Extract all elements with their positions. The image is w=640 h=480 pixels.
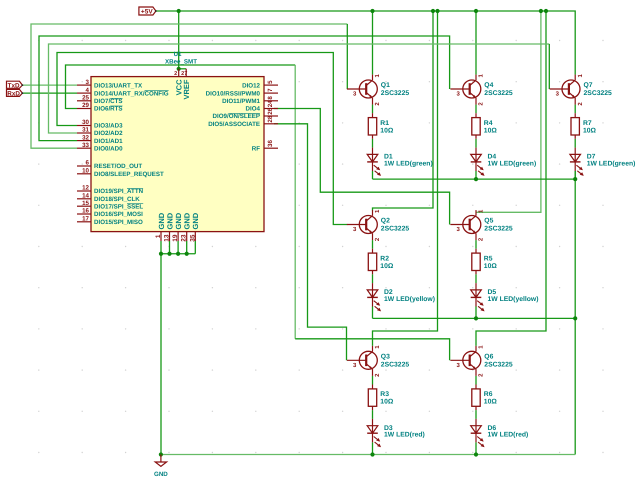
- wire +5V to Q5 collector: [476, 11, 541, 212]
- svg-text:DIO8/SLEEP_REQUEST: DIO8/SLEEP_REQUEST: [94, 171, 164, 178]
- wire DIO0/AD0 to Q1 base: [31, 24, 347, 148]
- svg-text:2SC3225: 2SC3225: [584, 90, 613, 97]
- svg-text:36: 36: [267, 140, 274, 147]
- LED D3 1W LED(red): [367, 419, 425, 447]
- svg-text:Q7: Q7: [584, 82, 593, 89]
- svg-text:DIO13/UART_TX: DIO13/UART_TX: [94, 82, 143, 89]
- pin 36 RF: [252, 140, 278, 153]
- svg-text:XBee_SMT: XBee_SMT: [165, 58, 197, 65]
- wire emitter to resistor: [372, 240, 374, 249]
- wire emitter to resistor: [372, 376, 374, 385]
- svg-text:28: 28: [267, 115, 274, 122]
- svg-text:10Ω: 10Ω: [380, 127, 394, 134]
- LED D5 1W LED(yellow): [471, 283, 539, 311]
- wire LED to bus: [475, 442, 477, 454]
- svg-text:10Ω: 10Ω: [380, 399, 394, 406]
- svg-text:35: 35: [189, 234, 196, 242]
- svg-text:27: 27: [181, 71, 187, 77]
- wire: [295, 339, 449, 361]
- svg-text:1W LED(green): 1W LED(green): [587, 160, 636, 167]
- pin 10 DIO8/SLEEP_REQUEST: [77, 168, 164, 179]
- svg-text:TxD: TxD: [8, 83, 20, 90]
- pin 17 DIO15/SPI_MISO: [77, 216, 143, 227]
- pin 12 DIO19/SPI_ATTN: [77, 185, 144, 196]
- wire DIO5/ASSOCIATE to Q3 base: [274, 124, 347, 360]
- pin 6 RESET/OD_OUT: [77, 160, 142, 171]
- svg-text:DIO9/ON/SLEEP: DIO9/ON/SLEEP: [213, 113, 260, 120]
- transistor Q7 2SC3225: [550, 74, 612, 106]
- LED D2 1W LED(yellow): [367, 283, 435, 311]
- wire VCC drop to U1: [178, 11, 180, 69]
- wire +5V to Q3 collector: [373, 11, 438, 346]
- svg-text:+5V: +5V: [141, 9, 153, 16]
- svg-text:3: 3: [86, 79, 90, 86]
- svg-text:17: 17: [82, 216, 89, 223]
- wire resistor to LED: [574, 139, 576, 148]
- svg-text:26: 26: [267, 107, 274, 114]
- pin 32 DIO1/AD1: [77, 134, 123, 145]
- junction: [159, 452, 163, 456]
- svg-text:1W LED(red): 1W LED(red): [384, 432, 425, 439]
- junction: [539, 9, 543, 13]
- svg-text:GND: GND: [154, 471, 168, 478]
- svg-text:16: 16: [82, 208, 89, 215]
- wire LED to bus: [372, 442, 374, 454]
- svg-text:VREF: VREF: [182, 79, 191, 99]
- wire DIO4 to Q5 base: [274, 109, 450, 225]
- junction: [177, 67, 181, 71]
- pin 7 DIO10/RSSI/PWM0: [206, 88, 278, 97]
- svg-text:DIO2/AD2: DIO2/AD2: [94, 130, 123, 137]
- pin 35 GND: [189, 212, 200, 241]
- wire emitter to resistor: [475, 105, 477, 114]
- svg-text:12: 12: [82, 185, 89, 192]
- svg-text:8: 8: [267, 96, 274, 100]
- LED D7 1W LED(green): [570, 148, 636, 176]
- svg-text:R1: R1: [380, 120, 389, 127]
- resistor R6 10Ω: [472, 385, 498, 411]
- svg-text:2SC3225: 2SC3225: [381, 226, 410, 233]
- svg-text:RxD: RxD: [7, 91, 20, 98]
- wire Q7 column down to GND bus: [574, 171, 576, 455]
- junction: [573, 177, 577, 181]
- svg-text:2SC3225: 2SC3225: [484, 90, 513, 97]
- wire emitter to resistor: [475, 376, 477, 385]
- transistor Q1 2SC3225: [347, 74, 409, 106]
- svg-text:1W LED(green): 1W LED(green): [488, 160, 537, 167]
- pin 8 DIO11/PWM1: [222, 96, 278, 105]
- wire resistor to LED: [372, 274, 374, 283]
- wire VREF jog: [179, 68, 187, 70]
- junction: [431, 9, 435, 13]
- svg-text:1W LED(red): 1W LED(red): [488, 432, 529, 439]
- svg-text:31: 31: [82, 127, 89, 134]
- svg-text:DIO16/SPI_MOSI: DIO16/SPI_MOSI: [94, 211, 143, 218]
- wire resistor to LED: [372, 410, 374, 419]
- svg-text:DIO14/UART_RX/CONFIG: DIO14/UART_RX/CONFIG: [94, 90, 169, 97]
- svg-text:DIO0/AD0: DIO0/AD0: [94, 145, 123, 152]
- svg-text:10: 10: [82, 168, 89, 175]
- svg-text:Q6: Q6: [484, 354, 493, 361]
- svg-text:R6: R6: [484, 391, 493, 398]
- svg-text:32: 32: [82, 134, 89, 141]
- junction: [167, 252, 171, 256]
- wire +5V to Q2 collector: [373, 11, 434, 211]
- svg-text:6: 6: [86, 160, 90, 167]
- svg-text:DIO12: DIO12: [242, 82, 260, 89]
- junction: [544, 9, 548, 13]
- svg-text:13: 13: [164, 234, 171, 242]
- svg-text:19: 19: [172, 234, 179, 242]
- resistor R2 10Ω: [368, 249, 394, 275]
- resistor R1 10Ω: [368, 113, 394, 139]
- svg-text:15: 15: [82, 200, 89, 207]
- junction: [474, 316, 478, 320]
- svg-text:5: 5: [267, 80, 274, 84]
- svg-text:DIO11/PWM1: DIO11/PWM1: [222, 98, 260, 105]
- svg-text:10Ω: 10Ω: [380, 263, 394, 270]
- svg-text:2SC3225: 2SC3225: [381, 90, 410, 97]
- junction: [176, 252, 180, 256]
- wire emitter to resistor: [372, 105, 374, 114]
- wire row2 LED bus: [373, 317, 576, 319]
- svg-text:25: 25: [82, 95, 89, 102]
- svg-text:14: 14: [82, 193, 89, 200]
- global label RxD: [7, 89, 24, 97]
- svg-text:RESET/OD_OUT: RESET/OD_OUT: [94, 163, 142, 170]
- wire emitter to resistor: [574, 105, 576, 114]
- wire DIO6/RTS to Q6 base: [66, 65, 296, 109]
- pin 30 DIO3/AD3: [77, 119, 123, 130]
- wire DIO1/AD1 to Q4 base: [39, 36, 450, 141]
- svg-text:10Ω: 10Ω: [484, 263, 498, 270]
- wire DIO2/AD2 to Q7 base: [49, 44, 550, 133]
- svg-text:30: 30: [82, 119, 89, 126]
- wire U1 GND down to bus: [160, 254, 162, 455]
- svg-text:DIO7/CTS: DIO7/CTS: [94, 98, 123, 105]
- transistor Q6 2SC3225: [450, 345, 512, 377]
- wire U1 GND pins collector: [160, 241, 162, 254]
- pin 1 GND: [155, 212, 166, 241]
- svg-text:R2: R2: [380, 255, 389, 262]
- wire row1 LED bus: [373, 178, 576, 180]
- junction: [185, 252, 189, 256]
- resistor R3 10Ω: [368, 385, 394, 411]
- svg-text:29: 29: [82, 102, 89, 109]
- svg-text:1: 1: [155, 234, 162, 238]
- pin 15 DIO17/SPI_SSEL: [77, 200, 143, 211]
- pin 24 DIO4: [246, 100, 278, 113]
- wire LED to bus: [574, 171, 576, 179]
- svg-text:DIO5/ASSOCIATE: DIO5/ASSOCIATE: [208, 121, 260, 128]
- svg-text:10Ω: 10Ω: [484, 127, 498, 134]
- svg-text:R5: R5: [484, 255, 493, 262]
- LED D4 1W LED(green): [471, 148, 537, 176]
- svg-text:DIO19/SPI_ATTN: DIO19/SPI_ATTN: [94, 188, 144, 195]
- svg-text:2SC3225: 2SC3225: [484, 226, 513, 233]
- pin 14 DIO18/SPI_CLK: [77, 193, 140, 204]
- wire LED to bus: [372, 171, 374, 179]
- svg-text:1W LED(yellow): 1W LED(yellow): [384, 296, 435, 303]
- svg-text:23: 23: [181, 234, 188, 242]
- IC U1 XBee_SMT body: [91, 77, 264, 232]
- wire emitter to resistor: [475, 240, 477, 249]
- svg-text:Q4: Q4: [484, 82, 493, 89]
- wire resistor to LED: [475, 139, 477, 148]
- wire +5V to Q6 collector: [476, 11, 546, 346]
- junction: [370, 452, 374, 456]
- svg-text:DIO10/RSSI/PWM0: DIO10/RSSI/PWM0: [206, 90, 261, 97]
- junction: [435, 9, 439, 13]
- pin 16 DIO16/SPI_MOSI: [77, 208, 143, 219]
- resistor R5 10Ω: [472, 249, 498, 275]
- svg-text:2: 2: [174, 71, 177, 77]
- svg-text:24: 24: [267, 100, 274, 107]
- transistor Q3 2SC3225: [347, 345, 409, 377]
- svg-text:2SC3225: 2SC3225: [381, 361, 410, 368]
- wire DIO3/AD3 to Q2 base: [57, 53, 347, 225]
- power +5V: [139, 7, 157, 16]
- wire RxD to pin 4: [22, 92, 77, 94]
- wire: [294, 65, 296, 339]
- svg-text:1W LED(yellow): 1W LED(yellow): [488, 296, 539, 303]
- pin 25 DIO7/CTS: [77, 95, 123, 106]
- svg-text:GND: GND: [191, 212, 200, 229]
- pin 19 GND: [172, 212, 183, 241]
- svg-text:33: 33: [82, 142, 89, 149]
- pin 28 DIO5/ASSOCIATE: [208, 115, 278, 128]
- svg-text:R4: R4: [484, 120, 493, 127]
- junction: [474, 9, 478, 13]
- wire: [548, 44, 550, 89]
- svg-text:DIO3/AD3: DIO3/AD3: [94, 123, 123, 130]
- wire: [346, 24, 348, 89]
- svg-text:DIO15/SPI_MISO: DIO15/SPI_MISO: [94, 219, 143, 226]
- pin 27 VREF: [181, 69, 191, 100]
- svg-text:2SC3225: 2SC3225: [484, 361, 513, 368]
- junction: [159, 252, 163, 256]
- svg-text:Q5: Q5: [484, 218, 493, 225]
- pin 2 VCC: [174, 69, 183, 96]
- svg-text:DIO1/AD1: DIO1/AD1: [94, 138, 123, 145]
- wire LED to bus: [475, 307, 477, 319]
- transistor Q5 2SC3225: [450, 209, 512, 241]
- wire resistor to LED: [372, 139, 374, 148]
- ground GND: [154, 455, 168, 479]
- svg-text:R7: R7: [583, 120, 592, 127]
- pin 13 GND: [164, 212, 175, 241]
- svg-text:DIO6/RTS: DIO6/RTS: [94, 106, 123, 113]
- svg-text:10Ω: 10Ω: [583, 127, 597, 134]
- svg-text:1W LED(green): 1W LED(green): [384, 160, 433, 167]
- pin 4 DIO14/UART_RX/CONFIG: [77, 87, 169, 98]
- junction: [370, 9, 374, 13]
- junction: [177, 9, 181, 13]
- pin 5 DIO12: [242, 80, 278, 89]
- wire resistor to LED: [475, 410, 477, 419]
- svg-text:DIO17/SPI_SSEL: DIO17/SPI_SSEL: [94, 203, 143, 210]
- wire resistor to LED: [475, 274, 477, 283]
- pin 26 DIO9/ON/SLEEP: [213, 107, 278, 120]
- transistor Q2 2SC3225: [347, 209, 409, 241]
- junction: [573, 316, 577, 320]
- pin 29 DIO6/RTS: [77, 102, 123, 113]
- LED D1 1W LED(green): [367, 148, 433, 176]
- pin 23 GND: [181, 212, 192, 241]
- LED D6 1W LED(red): [471, 419, 529, 447]
- svg-text:Q3: Q3: [381, 354, 390, 361]
- pin 31 DIO2/AD2: [77, 127, 123, 138]
- wire +5V to Q1 collector: [372, 11, 374, 75]
- svg-text:Q2: Q2: [381, 218, 390, 225]
- svg-text:4: 4: [86, 87, 90, 94]
- svg-text:7: 7: [267, 88, 274, 92]
- svg-text:U1: U1: [174, 51, 182, 58]
- wire LED to bus: [475, 171, 477, 179]
- junction: [474, 177, 478, 181]
- svg-text:Q1: Q1: [381, 82, 390, 89]
- wire +5V to Q4 collector: [475, 11, 477, 75]
- svg-text:R3: R3: [380, 391, 389, 398]
- junction: [474, 452, 478, 456]
- wire GND bottom bus: [161, 454, 575, 456]
- wire TxD to pin 3: [22, 84, 77, 86]
- pin 33 DIO0/AD0: [77, 142, 123, 153]
- wire +5V rail: [156, 11, 575, 75]
- svg-text:DIO4: DIO4: [246, 106, 261, 113]
- wire LED to bus: [372, 307, 374, 319]
- resistor R4 10Ω: [472, 113, 498, 139]
- svg-text:DIO18/SPI_CLK: DIO18/SPI_CLK: [94, 196, 140, 203]
- pin 3 DIO13/UART_TX: [77, 79, 143, 90]
- svg-text:10Ω: 10Ω: [484, 399, 498, 406]
- resistor R7 10Ω: [571, 113, 597, 139]
- transistor Q4 2SC3225: [450, 74, 512, 106]
- svg-text:RF: RF: [252, 145, 260, 152]
- global label TxD: [7, 81, 24, 89]
